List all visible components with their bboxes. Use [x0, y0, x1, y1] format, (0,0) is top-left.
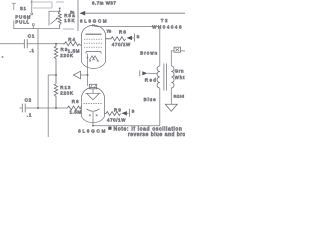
wire secondary top lead: [171, 51, 174, 66]
svg-text:R9: R9: [114, 108, 122, 113]
svg-text:.1: .1: [27, 112, 32, 117]
faint box top-left: [30, 2, 52, 8]
svg-text:Blue: Blue: [144, 97, 157, 102]
svg-text:R9: R9: [61, 47, 69, 52]
svg-text:R13: R13: [60, 85, 71, 90]
tube V1 grid3: [84, 38, 103, 40]
svg-text:B: B: [132, 109, 135, 113]
svg-text:R4: R4: [68, 37, 76, 42]
resistor R8 screen: [106, 37, 126, 41]
node tap terminal: [139, 70, 141, 76]
resistor R9b screen: [105, 112, 121, 116]
wire segment right: [63, 28, 74, 30]
svg-text:Red: Red: [145, 78, 158, 83]
svg-text:470/1W: 470/1W: [107, 117, 126, 122]
tube V1 plate tip: [92, 24, 94, 26]
switch S1 terminal: [12, 3, 16, 10]
svg-text:T2: T2: [161, 18, 169, 23]
tube V1 cathode: [86, 51, 101, 53]
tube V2 top cap: [89, 84, 96, 89]
tube V2 grid: [84, 103, 103, 105]
node B+ arrow: [80, 11, 86, 16]
resistor R13: [54, 75, 57, 108]
transformer secondary winding: [171, 66, 174, 88]
tube V1 grid2: [84, 42, 103, 44]
svg-text:6L6GCM: 6L6GCM: [78, 128, 107, 133]
wire V2 cathode lead: [92, 112, 94, 126]
wire B+ rail: [86, 12, 186, 14]
tube V1 plate: [86, 33, 102, 35]
svg-text:8Ωld: 8Ωld: [174, 93, 185, 98]
wire primary top lead: [159, 27, 161, 66]
svg-text:6.7m W37: 6.7m W37: [92, 1, 116, 6]
note bullet: [108, 127, 111, 130]
svg-text:C1: C1: [28, 34, 35, 39]
svg-text:.1: .1: [30, 48, 35, 53]
wire bottom run: [25, 107, 66, 109]
capacitor C2: [22, 104, 25, 113]
wire feedback branch: [81, 74, 88, 76]
node junction: [87, 74, 89, 76]
node terminal B: [133, 34, 135, 42]
capacitor C1: [24, 39, 27, 48]
svg-text:R6: R6: [72, 99, 80, 104]
wire input bottom: [20, 107, 23, 109]
svg-text:Brown: Brown: [140, 51, 158, 56]
svg-text:470/1W: 470/1W: [112, 42, 131, 47]
svg-text:B: B: [137, 35, 140, 39]
tube V1 heater: [90, 56, 98, 60]
resistor R9: [54, 44, 57, 75]
svg-text:1.5M: 1.5M: [70, 110, 82, 115]
node terminal B: [129, 109, 131, 117]
wire cathode: [87, 54, 89, 86]
wire plate to transformer: [95, 26, 160, 28]
node junction: [55, 74, 57, 76]
svg-text:Wht: Wht: [175, 75, 185, 80]
tube V1 grid1: [84, 46, 103, 48]
potentiometer R5a: [49, 11, 60, 25]
node tap arrow Red: [142, 71, 147, 75]
svg-text:220K: 220K: [60, 53, 73, 58]
node output connector: [174, 47, 181, 52]
tube V2 heater marks: [89, 114, 98, 116]
svg-text:15K: 15K: [64, 18, 75, 23]
wire dash top: [56, 1, 64, 3]
node arrow to B: [121, 111, 127, 115]
svg-text:Grn: Grn: [175, 69, 185, 74]
svg-text:C2: C2: [25, 98, 32, 103]
wire secondary bottom lead: [170, 88, 172, 104]
node junction: [37, 107, 39, 109]
tube V2 cathode: [87, 109, 100, 111]
ground: [165, 104, 177, 111]
wire branch left: [48, 75, 56, 137]
wire switch to pot: [14, 21, 60, 29]
node junction: [55, 107, 57, 109]
wire to grid: [27, 43, 63, 45]
wire primary bottom lead: [93, 88, 160, 126]
transformer primary winding: [157, 66, 160, 88]
wire long vertical: [37, 29, 39, 108]
node feedback arrow: [74, 71, 81, 79]
tube V2 envelope: [82, 87, 105, 122]
svg-text:220K: 220K: [60, 91, 73, 96]
svg-text:WH04048: WH04048: [152, 24, 183, 29]
transformer core: [164, 64, 167, 91]
svg-text:R8: R8: [119, 30, 127, 35]
dot artifact left: [2, 56, 4, 58]
switch S1: [31, 0, 33, 12]
node junction: [55, 43, 57, 45]
tube V1 envelope: [82, 25, 106, 68]
svg-text:reverse blue and brow: reverse blue and brow: [128, 132, 185, 137]
wire input left: [0, 43, 24, 45]
svg-text:7B: 7B: [107, 30, 112, 34]
tube V2 plate: [86, 89, 101, 100]
svg-text:S1: S1: [20, 6, 27, 11]
wire vertical B+ feed: [77, 0, 79, 31]
svg-text:6L6GCM: 6L6GCM: [80, 18, 108, 23]
node arrow to B: [127, 36, 133, 40]
